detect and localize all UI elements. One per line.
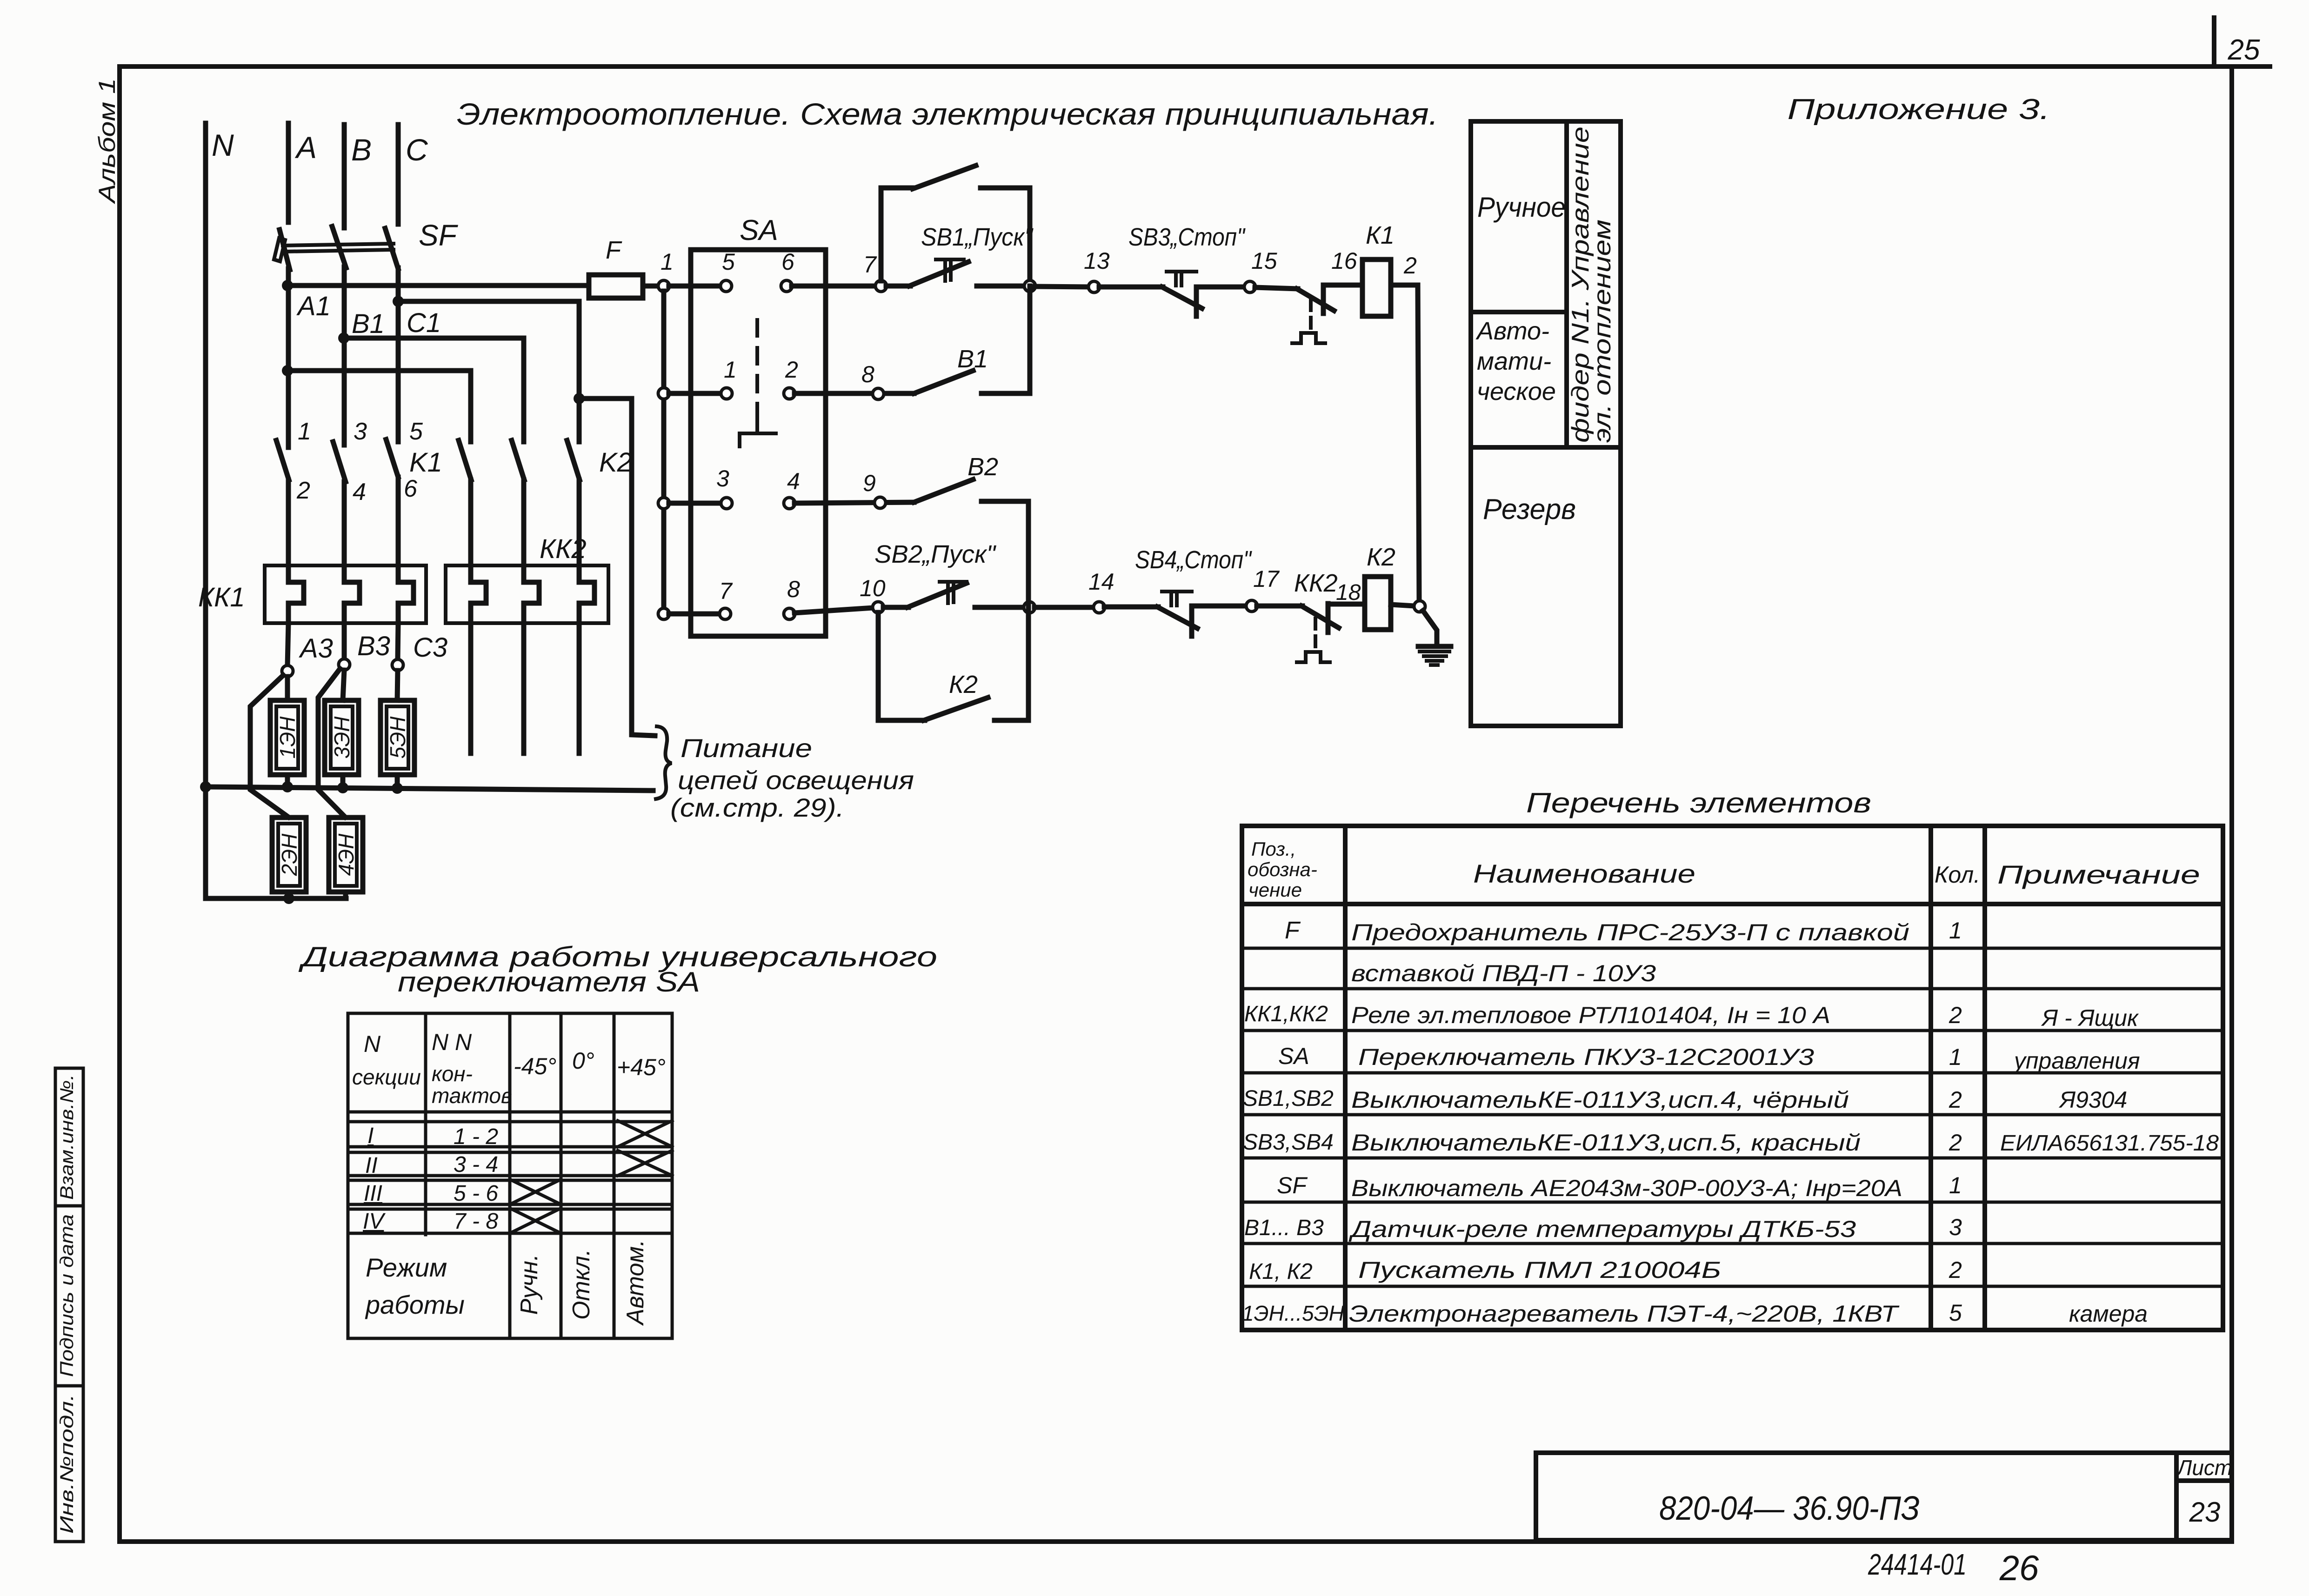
svg-text:3: 3 [716, 465, 729, 492]
wire to ground [1423, 611, 1437, 645]
svg-text:Питание: Питание [681, 733, 812, 763]
svg-text:2: 2 [1949, 1002, 1962, 1028]
contact K2 self-hold parallel with SB2 [878, 612, 925, 720]
svg-text:SB4„Стоп": SB4„Стоп" [1135, 546, 1253, 574]
parts row lines [1242, 947, 2223, 950]
svg-text:7: 7 [863, 252, 877, 278]
parts col line 2 [1929, 826, 1933, 1330]
svg-text:13: 13 [1084, 248, 1110, 274]
neutral bus horizontal [206, 787, 653, 791]
wire lighting feed [579, 399, 655, 736]
svg-text:2: 2 [785, 357, 798, 383]
contact K1 self-hold parallel with SB1 [881, 188, 914, 281]
svg-text:4ЭН: 4ЭН [334, 833, 358, 876]
svg-text:SA: SA [1278, 1043, 1309, 1069]
mode table row line 2 [1471, 445, 1621, 450]
svg-text:23: 23 [2189, 1496, 2221, 1528]
terminal C3 [392, 659, 403, 671]
circuit breaker SF tie bar [283, 244, 394, 246]
svg-text:Режим: Режим [366, 1253, 447, 1282]
svg-text:3 - 4: 3 - 4 [454, 1152, 498, 1177]
heater 4ЭН [329, 818, 363, 892]
header bottom line [348, 1111, 672, 1114]
wire A3 to heater 2ЭН [250, 675, 288, 817]
svg-text:A1: A1 [296, 291, 331, 321]
mode table frame [1471, 121, 1621, 726]
svg-text:В1... В3: В1... В3 [1244, 1216, 1324, 1240]
relay coil K1 [1362, 259, 1391, 316]
wire A1 to fuse F [287, 283, 589, 288]
svg-text:5ЭН: 5ЭН [386, 716, 410, 759]
svg-text:2: 2 [296, 477, 310, 504]
svg-text:F: F [1285, 917, 1301, 944]
svg-text:2: 2 [1949, 1087, 1962, 1113]
wire C tap to reserve feeder [398, 301, 579, 442]
thermal relay KK1 element C [398, 565, 414, 623]
wire phase B upper [342, 125, 347, 228]
mode table rotated column divider [1564, 121, 1569, 447]
svg-text:тактов: тактов [432, 1084, 512, 1108]
svg-text:Поз.,: Поз., [1251, 838, 1296, 860]
svg-text:К2: К2 [1367, 543, 1395, 571]
svg-text:7 - 8: 7 - 8 [454, 1209, 498, 1234]
wire phase C down [396, 268, 401, 442]
wire phase B down [342, 267, 347, 445]
node B1 junction [338, 332, 349, 344]
thermal relay KK2 element 3 [579, 565, 594, 623]
wire B tap to reserve feeder [344, 338, 524, 442]
thermal relay KK2 box [446, 565, 608, 623]
wire phase A to node A1 [286, 269, 291, 447]
svg-text:Автом.: Автом. [622, 1240, 649, 1326]
svg-text:1: 1 [1949, 1172, 1962, 1198]
column line -45 [560, 1013, 563, 1338]
svg-text:К1, К2: К1, К2 [1249, 1259, 1313, 1284]
mode table row line 1 [1471, 310, 1567, 314]
heater 5ЭН [380, 700, 414, 775]
circuit breaker SF pole B [332, 226, 346, 268]
svg-text:Откл.: Откл. [568, 1249, 595, 1320]
node C1 junction [393, 296, 404, 307]
svg-text:1ЭН: 1ЭН [275, 716, 300, 759]
svg-text:камера: камера [2069, 1301, 2148, 1327]
svg-text:1ЭН...5ЭН: 1ЭН...5ЭН [1242, 1301, 1345, 1325]
svg-text:Предохранитель ПРС-25У3-П с пл: Предохранитель ПРС-25У3-П с плавкой [1351, 919, 1909, 945]
column line 0 [613, 1013, 616, 1338]
svg-text:Наименование: Наименование [1473, 859, 1695, 888]
parts header bottom [1242, 902, 2223, 906]
svg-text:A: A [294, 130, 317, 165]
node 13 terminal [1088, 281, 1100, 293]
wire to node 13 [1035, 286, 1089, 287]
wire SB boxes right side vertical [1026, 501, 1031, 720]
circuit breaker SF pole A [280, 230, 290, 270]
switch SA contact 1-2 [658, 388, 669, 399]
svg-text:C1: C1 [407, 308, 441, 338]
svg-text:2: 2 [1949, 1257, 1962, 1283]
svg-text:26: 26 [1999, 1549, 2039, 1588]
svg-text:Подпись и дата: Подпись и дата [57, 1214, 77, 1377]
parts table frame [1242, 826, 2223, 1330]
sensor contact B2 [874, 497, 886, 508]
row II strip [348, 1151, 672, 1154]
svg-text:F: F [606, 236, 622, 264]
svg-text:1 - 2: 1 - 2 [454, 1124, 498, 1149]
wire phase C upper [396, 125, 401, 224]
svg-text:Инв.№подл.: Инв.№подл. [57, 1394, 77, 1534]
parts col line 3 [1982, 826, 1987, 1330]
svg-text:Ручн.: Ручн. [516, 1254, 543, 1315]
parts col line 1 [1343, 826, 1348, 1330]
svg-text:2: 2 [1403, 253, 1417, 279]
svg-text:2: 2 [1949, 1130, 1962, 1156]
contactor K2 main contact pole 2 [512, 440, 524, 480]
switch SA handle [740, 421, 776, 446]
node common return terminal [1414, 601, 1425, 612]
node 10 terminal [873, 602, 884, 613]
svg-text:Авто-: Авто- [1475, 317, 1549, 345]
svg-text:Я9304: Я9304 [2058, 1087, 2127, 1113]
svg-text:1: 1 [1949, 918, 1962, 944]
wire C3 to heater 5ЭН [397, 671, 398, 700]
row III strip [348, 1179, 672, 1182]
svg-text:В1: В1 [957, 345, 988, 373]
wire B3 to heater 3ЭН [343, 670, 344, 700]
svg-text:1: 1 [1949, 1044, 1962, 1070]
svg-text:IV: IV [363, 1209, 386, 1234]
row IV strip [348, 1208, 672, 1211]
wire KK1 outputs to terminals [287, 623, 288, 665]
svg-text:3: 3 [354, 418, 367, 445]
svg-text:(см.стр. 29).: (см.стр. 29). [670, 793, 844, 822]
svg-text:SB1,SB2: SB1,SB2 [1243, 1086, 1334, 1111]
svg-text:1: 1 [661, 249, 674, 275]
svg-text:переключателя SA: переключателя SA [398, 966, 700, 997]
thermal relay KK1 element A [288, 565, 304, 623]
node junction SB2 output [1024, 602, 1035, 613]
svg-text:I: I [367, 1124, 374, 1148]
contactor K1 main contact 5-6 [386, 439, 398, 477]
wire A3 to heater 1ЭН [285, 677, 290, 700]
heater 2ЭН [272, 818, 306, 892]
svg-text:A3: A3 [299, 633, 333, 664]
svg-text:SA: SA [740, 214, 778, 246]
svg-text:B1: B1 [352, 309, 385, 339]
svg-text:КК2: КК2 [1294, 569, 1338, 597]
wire lower heater return bus [206, 896, 346, 901]
row III cross at -45 [510, 1179, 561, 1204]
switch SA box [691, 250, 826, 636]
thermal relay KK2 element 2 [524, 565, 539, 623]
relay coil K2 [1365, 577, 1391, 630]
svg-text:Альбом 1: Альбом 1 [94, 78, 120, 205]
svg-text:цепей освещения: цепей освещения [678, 765, 914, 795]
wire node 16 to coil K1 [1323, 283, 1362, 288]
svg-text:чение: чение [1248, 879, 1302, 901]
svg-text:вставкой ПВД-П - 10У3: вставкой ПВД-П - 10У3 [1351, 960, 1656, 986]
svg-text:Выключатель АЕ2043м-30Р-00У3-А: Выключатель АЕ2043м-30Р-00У3-А; Iнр=20А [1351, 1175, 1902, 1201]
svg-text:Взам.инв.№.: Взам.инв.№. [57, 1074, 77, 1200]
contactor K2 main contact pole 3 [567, 440, 580, 480]
svg-text:Примечание: Примечание [1997, 860, 2200, 889]
svg-text:5: 5 [1949, 1300, 1962, 1326]
heater 3ЭН [325, 700, 359, 775]
svg-text:8: 8 [861, 361, 874, 387]
switch SA contact 7-8 [658, 608, 669, 619]
svg-text:N N: N N [432, 1029, 472, 1055]
thermal relay KK1 element B [344, 565, 360, 623]
row IV cross at -45 [510, 1208, 561, 1233]
svg-text:18: 18 [1336, 580, 1361, 605]
svg-text:B: B [351, 133, 372, 167]
svg-text:Приложение 3.: Приложение 3. [1788, 93, 2050, 126]
contactor K1 main contact 1-2 [276, 440, 289, 480]
column line N секции [424, 1013, 427, 1235]
svg-text:B3: B3 [357, 631, 390, 661]
svg-text:5: 5 [722, 249, 735, 275]
wire heater bottoms to neutral bus [285, 775, 290, 787]
svg-text:-45°: -45° [514, 1053, 556, 1079]
svg-text:5: 5 [409, 418, 423, 445]
svg-text:10: 10 [860, 575, 886, 601]
svg-text:К1: К1 [1366, 221, 1395, 249]
wire node SB2 output to node 14 [1034, 605, 1094, 610]
svg-text:3: 3 [1949, 1214, 1962, 1240]
svg-text:Кол.: Кол. [1935, 862, 1980, 888]
svg-text:Ручное: Ручное [1477, 192, 1566, 223]
svg-text:5 - 6: 5 - 6 [454, 1181, 498, 1206]
switch SA selector dashed axis [755, 320, 759, 421]
svg-text:SB1„Пуск": SB1„Пуск" [921, 223, 1034, 251]
row I strip [348, 1120, 672, 1124]
svg-text:SB3,SB4: SB3,SB4 [1243, 1130, 1334, 1155]
wire control feeder vertical [661, 291, 667, 614]
svg-text:4: 4 [787, 468, 800, 494]
svg-text:Реле эл.тепловое РТЛ101404, I: Реле эл.тепловое РТЛ101404, Iн = 10 А [1351, 1002, 1830, 1028]
switch SA contact 3-4 [658, 498, 669, 509]
svg-text:секции: секции [352, 1065, 421, 1089]
svg-text:C: C [406, 133, 428, 167]
switch SA contact 5-6 [669, 284, 721, 289]
svg-text:1: 1 [298, 418, 311, 445]
wire common return vertical [1418, 285, 1419, 602]
node 1 terminal [658, 280, 669, 292]
thermal relay KK2 element 1 [471, 565, 486, 623]
svg-text:2ЭН: 2ЭН [277, 833, 301, 877]
terminal A3 [282, 665, 293, 677]
wire A tap to reserve feeder [282, 365, 293, 376]
svg-text:Датчик-реле температуры ДТКБ: Датчик-реле температуры ДТКБ-53 [1348, 1216, 1856, 1242]
svg-text:Я - Ящик: Я - Ящик [2041, 1005, 2139, 1031]
svg-text:Пускатель ПМЛ 210004Б: Пускатель ПМЛ 210004Б [1358, 1257, 1721, 1283]
svg-text:Переключатель ПКУ3-12С2001У3: Переключатель ПКУ3-12С2001У3 [1358, 1044, 1814, 1070]
wire phase A upper [286, 123, 291, 222]
svg-text:9: 9 [863, 470, 876, 496]
circuit breaker SF latch flag [274, 238, 285, 261]
node 15 terminal [1244, 281, 1255, 293]
wire reserve stubs below KK2 [468, 623, 474, 753]
node bus junctions [200, 781, 211, 792]
svg-text:24414-01: 24414-01 [1868, 1548, 1967, 1581]
title block box [1536, 1450, 2232, 1455]
svg-text:В2: В2 [968, 453, 998, 481]
svg-text:17: 17 [1253, 566, 1280, 592]
svg-text:ВыключательКЕ-011У3,исп.4, чёр: ВыключательКЕ-011У3,исп.4, чёрный [1351, 1087, 1849, 1113]
brace lighting feed [656, 726, 672, 799]
svg-text:К2: К2 [949, 671, 978, 698]
heater 1ЭН [270, 700, 304, 775]
svg-text:КК1: КК1 [198, 582, 245, 612]
wire coil K1 output node 2 [1391, 283, 1418, 288]
svg-text:K2: K2 [599, 447, 632, 478]
thermal relay KK1 box [265, 565, 426, 623]
svg-text:III: III [364, 1181, 382, 1206]
svg-text:мати-: мати- [1477, 347, 1551, 375]
sensor contact B1 [873, 388, 884, 399]
page number separator [2212, 18, 2216, 66]
svg-text:эл. отоплением: эл. отоплением [1589, 219, 1616, 443]
node 14 terminal [1094, 602, 1105, 613]
thermal contact KK1 (NC) [1255, 287, 1298, 289]
svg-text:7: 7 [719, 578, 733, 604]
svg-text:SB3„Стоп": SB3„Стоп" [1128, 223, 1246, 251]
svg-text:25: 25 [2228, 34, 2260, 66]
svg-text:820-04— 36.90-ПЗ: 820-04— 36.90-ПЗ [1659, 1490, 1920, 1527]
svg-text:ЕИЛА656131.755-18: ЕИЛА656131.755-18 [2000, 1131, 2219, 1156]
wire B3 to heater 4ЭН [318, 669, 345, 817]
ground [1418, 644, 1451, 649]
row II cross at +45 [618, 1150, 672, 1176]
SA diagram table frame [348, 1013, 672, 1338]
svg-text:кон-: кон- [432, 1062, 473, 1086]
svg-text:Лист: Лист [2176, 1456, 2232, 1480]
svg-text:N: N [212, 128, 234, 162]
svg-text:16: 16 [1331, 248, 1357, 274]
svg-text:14: 14 [1088, 569, 1114, 595]
svg-text:II: II [365, 1153, 378, 1178]
svg-text:6: 6 [404, 475, 417, 502]
svg-text:15: 15 [1251, 248, 1277, 274]
wire coil K2 output [1391, 605, 1415, 606]
svg-text:6: 6 [781, 249, 794, 275]
svg-text:Электроотопление. Схема элект: Электроотопление. Схема электрическая пр… [457, 97, 1438, 131]
svg-text:C3: C3 [413, 632, 447, 663]
svg-text:+45°: +45° [617, 1054, 666, 1080]
wire node 18 to coil K2 [1328, 602, 1365, 607]
svg-text:КК2: КК2 [540, 534, 587, 564]
svg-text:1: 1 [724, 357, 737, 383]
node junction SB1 output [1024, 280, 1035, 292]
contactor K2 main contact pole 1 [459, 440, 471, 480]
svg-text:КК1,КК2: КК1,КК2 [1244, 1002, 1328, 1026]
svg-text:3ЭН: 3ЭН [330, 716, 354, 759]
svg-text:ВыключательКЕ-011У3,исп.5, кра: ВыключательКЕ-011У3,исп.5, красный [1351, 1130, 1861, 1156]
wire N bus vertical [203, 123, 208, 898]
svg-text:8: 8 [787, 576, 800, 602]
svg-text:Резерв: Резерв [1483, 493, 1576, 525]
svg-text:K1: K1 [409, 447, 442, 478]
contactor K1 main contact 3-4 [333, 442, 346, 482]
svg-text:SF: SF [419, 219, 459, 252]
svg-text:управления: управления [2013, 1048, 2140, 1074]
svg-text:работы: работы [365, 1290, 465, 1319]
row I cross at +45 [618, 1121, 672, 1147]
left stamp column box [55, 1068, 83, 1542]
svg-text:SF: SF [1277, 1172, 1308, 1198]
svg-text:4: 4 [353, 479, 366, 505]
node 17 terminal [1246, 600, 1257, 612]
svg-text:Электронагреватель ПЭТ-4,~220: Электронагреватель ПЭТ-4,~220В, 1КВТ [1349, 1301, 1900, 1327]
node 7 terminal [875, 280, 887, 292]
svg-text:N: N [364, 1031, 381, 1057]
terminal B3 [339, 659, 350, 670]
svg-text:SB2„Пуск": SB2„Пуск" [874, 540, 997, 568]
fuse F [589, 275, 643, 298]
svg-text:ческое: ческое [1477, 378, 1556, 406]
wire fuse to node 1 [643, 284, 659, 289]
svg-text:0°: 0° [572, 1048, 594, 1074]
column line NN контактов [508, 1013, 512, 1338]
svg-text:Перечень элементов: Перечень элементов [1526, 787, 1871, 818]
node A1 junction [282, 280, 293, 291]
svg-text:обозна-: обозна- [1248, 858, 1317, 880]
circuit breaker SF pole C [385, 228, 398, 269]
node lighting tap junction [574, 393, 585, 404]
